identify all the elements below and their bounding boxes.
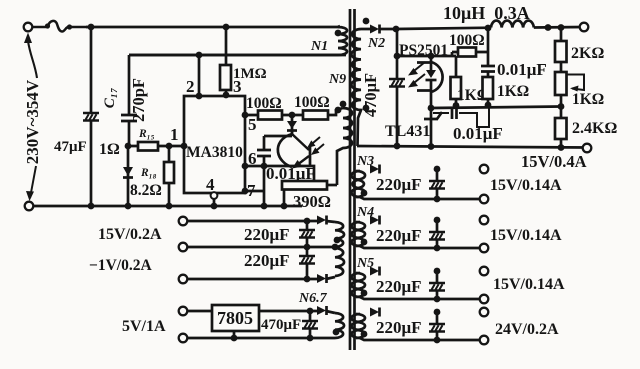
svg-text:100Ω: 100Ω — [294, 94, 330, 111]
node pot-feedback — [558, 103, 565, 110]
capacitor C17 270pF line — [128, 55, 131, 146]
wire N3 top — [351, 171, 360, 197]
svg-text:5: 5 — [248, 115, 257, 134]
svg-text:100Ω: 100Ω — [246, 95, 282, 112]
capacitor 220uF N8 — [436, 312, 439, 340]
diode D9 row4 — [317, 306, 327, 315]
node LED top — [428, 53, 435, 60]
svg-text:N6.7: N6.7 — [298, 291, 328, 306]
diode N4 — [370, 216, 380, 225]
potentiometer leg — [560, 95, 563, 118]
wire row1 — [187, 221, 335, 222]
fuse F1 squiggle — [33, 21, 88, 32]
terminal N4 minus — [480, 244, 489, 253]
resistor 1K A box — [451, 77, 462, 99]
svg-text:470μF: 470μF — [361, 73, 380, 117]
capacitor 0.01uF pin6 top wire — [264, 135, 292, 138]
node TL431 anode — [428, 143, 435, 150]
svg-text:N5: N5 — [356, 256, 374, 271]
node C17-pin1 — [125, 143, 132, 150]
inductor L1 10uH — [491, 21, 534, 28]
node N5-cap-bot — [434, 296, 441, 303]
diode D5 line — [291, 115, 294, 136]
phase dot N8 — [361, 331, 368, 338]
winding N8 — [356, 314, 365, 338]
pin 4 wire — [213, 199, 216, 206]
svg-text:7805: 7805 — [217, 308, 253, 328]
capacitor 220uF row23 — [306, 247, 309, 279]
terminal AC input bottom — [25, 202, 34, 211]
node row2-cap — [304, 244, 311, 251]
wire 7805 ground leg — [233, 331, 236, 338]
resistor R18 box — [164, 162, 174, 183]
svg-text:7: 7 — [247, 181, 256, 200]
node LED cathode — [428, 105, 435, 112]
node N8-cap-bot — [434, 337, 441, 344]
svg-text:390Ω: 390Ω — [293, 192, 331, 211]
svg-text:8.2Ω: 8.2Ω — [130, 182, 162, 199]
capacitor 220uF N4 — [436, 220, 439, 248]
phase dot N4 — [361, 239, 368, 246]
wire N8 bottom — [360, 338, 480, 340]
node R18-top — [166, 143, 173, 150]
terminal 5V1A — [179, 307, 188, 316]
svg-text:220μF: 220μF — [376, 277, 422, 296]
wire row3 — [187, 277, 335, 279]
resistor 1M box — [220, 65, 231, 90]
capacitor 0.01uF comp loop — [433, 107, 489, 127]
node rail-548 — [545, 24, 552, 31]
resistor 2K line — [560, 27, 563, 72]
diode N8 — [370, 308, 380, 317]
resistor 1K B box — [483, 77, 494, 99]
winding N1 — [129, 26, 347, 55]
wire pin5 — [245, 108, 343, 115]
svg-text:3: 3 — [233, 77, 242, 96]
svg-text:230V~354V: 230V~354V — [23, 79, 42, 164]
wire LED feed y56 — [397, 55, 456, 58]
winding NB lower — [335, 248, 344, 276]
svg-text:TL431: TL431 — [385, 123, 430, 140]
winding N6.7 — [335, 313, 344, 338]
node rail-488 — [485, 25, 492, 32]
svg-text:5V/1A: 5V/1A — [122, 318, 166, 335]
wire N4 bottom — [360, 246, 480, 248]
terminal N5 minus — [480, 295, 489, 304]
pin 3 node — [223, 92, 230, 99]
capacitor 47uF symbol — [83, 113, 99, 121]
phase dot NA — [334, 237, 341, 244]
svg-text:0.01μF: 0.01μF — [453, 124, 503, 143]
node 470-LED tap — [394, 53, 401, 60]
resistor 390ohm left leg — [283, 189, 286, 206]
svg-text:15V/0.14A: 15V/0.14A — [490, 227, 562, 244]
capacitor 0.01uF B bars — [481, 66, 495, 72]
node N3-cap-bot — [434, 196, 441, 203]
regulator 7805 box — [212, 305, 259, 331]
optocoupler U2 package arc — [417, 62, 443, 92]
winding N3 — [356, 171, 365, 197]
svg-text:R₁₈: R₁₈ — [140, 167, 157, 179]
node 2.4K-rail — [558, 144, 565, 151]
phase dot N6.7 — [333, 329, 340, 336]
node N4-cap-top — [434, 217, 441, 224]
terminal N4 plus — [480, 216, 489, 225]
TL431 U3 line — [430, 108, 433, 146]
wire N5 top — [352, 273, 361, 297]
node 1KB bottom — [485, 102, 492, 109]
pin 7 wire — [245, 190, 264, 193]
svg-text:1: 1 — [170, 125, 179, 144]
node N5-cap-top — [434, 268, 441, 275]
svg-text:15V/0.14A: 15V/0.14A — [493, 276, 565, 293]
svg-text:220μF: 220μF — [244, 251, 290, 270]
svg-text:470μF: 470μF — [261, 317, 301, 333]
node rail-1M — [223, 24, 230, 31]
node rail-47u — [88, 24, 95, 31]
svg-text:10μH 0.3A: 10μH 0.3A — [443, 3, 530, 23]
terminal 5V common — [179, 334, 188, 343]
wire N5 bottom — [360, 297, 480, 299]
potentiometer wiper bracket — [567, 75, 584, 91]
svg-text:15V/0.2A: 15V/0.2A — [98, 226, 162, 243]
diode D6 N2 wire — [361, 28, 397, 31]
svg-text:270pF: 270pF — [129, 78, 148, 122]
resistor 100ohm B box — [303, 111, 328, 120]
terminal 15V02 — [179, 217, 188, 226]
node 47u-bottom — [88, 203, 95, 210]
winding N4 — [356, 222, 365, 246]
node pin7-rail — [261, 203, 268, 210]
LED emission arrows — [412, 62, 425, 85]
node row3-cap — [304, 276, 311, 283]
pin 2 wire — [198, 55, 201, 96]
resistor 2.4K legs — [560, 139, 563, 148]
node R18-bottom — [166, 203, 173, 210]
wire row4 right — [259, 311, 335, 313]
node N3-cap-top — [434, 166, 441, 173]
capacitor 0.01uF pin6 line — [263, 136, 266, 206]
svg-text:N3: N3 — [356, 154, 374, 169]
svg-text:15V/0.14A: 15V/0.14A — [490, 177, 562, 194]
svg-text:1Ω: 1Ω — [99, 141, 120, 158]
diode D5 symbol down — [287, 121, 297, 129]
node row4-cap — [307, 308, 314, 315]
capacitor 220uF N3 — [436, 169, 439, 199]
resistor 2K box — [555, 41, 567, 62]
svg-text:24V/0.2A: 24V/0.2A — [495, 321, 559, 338]
winding N9 — [337, 108, 352, 185]
terminal 15V04 minus — [583, 144, 592, 153]
wire N8 top — [352, 314, 361, 338]
phase dot N9 — [340, 101, 347, 108]
svg-text:220μF: 220μF — [376, 226, 422, 245]
diode N5 — [370, 267, 380, 276]
diode D4 line — [127, 146, 130, 206]
arrow 230V range line top — [28, 41, 37, 78]
winding N5 — [356, 273, 365, 297]
resistor 100ohm A box — [258, 111, 282, 120]
phototransistor Q1 base bar — [309, 145, 312, 166]
pin 5 node — [242, 112, 249, 119]
pin 6 node — [242, 163, 249, 170]
capacitor 47uF line — [90, 27, 93, 206]
phase dot N3 — [361, 190, 368, 197]
svg-text:C₁₇: C₁₇ — [102, 88, 118, 108]
svg-text:N4: N4 — [356, 205, 374, 220]
phase dot N2 top — [363, 18, 370, 25]
terminal N8 minus — [480, 336, 489, 345]
node between 100ohms — [289, 112, 296, 119]
svg-text:MA3810: MA3810 — [186, 144, 243, 161]
phase dot N5 — [361, 290, 368, 297]
terminal N3 plus — [480, 165, 489, 174]
pin 1 wire — [128, 145, 184, 148]
pin 6 wire — [245, 166, 314, 181]
capacitor 0.01uF pin6 bars — [257, 150, 271, 156]
capacitor 0.01uF B line — [487, 28, 490, 77]
resistor 390ohm box — [282, 181, 327, 190]
svg-text:N9: N9 — [328, 72, 346, 87]
IC U1 MA3810 box — [184, 96, 245, 193]
resistor 2.4K box — [555, 118, 567, 139]
winding N2 — [351, 29, 361, 146]
capacitor C17 bars — [121, 115, 137, 121]
svg-text:0.01μF: 0.01μF — [497, 60, 547, 79]
light arrows into Q1 — [310, 137, 324, 153]
pin 2 node — [196, 52, 203, 59]
terminal -1V02 — [179, 243, 188, 252]
capacitor 470uF symbol — [389, 79, 405, 87]
node rail-2K — [558, 24, 565, 31]
node row1-cap — [304, 218, 311, 225]
optocoupler U2 LED symbol — [426, 70, 436, 78]
resistor R15 1ohm box — [138, 142, 158, 151]
wire N3 bottom — [360, 197, 480, 199]
wire top rail primary — [86, 26, 340, 29]
wire feedback y107 — [431, 107, 561, 109]
diode D8 row3 — [317, 274, 327, 283]
capacitor 0.01uF comp bars — [452, 107, 457, 119]
svg-text:N2: N2 — [367, 36, 385, 51]
pin 4 circle — [211, 192, 218, 199]
resistor R18 line — [168, 146, 171, 206]
phase dot N1 — [335, 30, 342, 37]
node N9 top — [335, 107, 342, 114]
diode D6 symbol — [370, 25, 380, 34]
diode N3 — [370, 165, 380, 174]
wire N4 top — [352, 222, 361, 246]
terminal common row3 — [179, 275, 188, 284]
capacitor 220uF N5 — [436, 271, 439, 299]
svg-text:6: 6 — [248, 149, 257, 168]
winding NA upper — [335, 222, 344, 247]
node N8-cap-top — [434, 309, 441, 316]
svg-text:R₁₅: R₁₅ — [138, 128, 155, 140]
wire bottom rail primary — [33, 205, 302, 208]
node N4-cap-bot — [434, 245, 441, 252]
wire N1 return y55 — [129, 54, 346, 57]
phototransistor Q1 body — [278, 134, 292, 167]
svg-text:1KΩ: 1KΩ — [572, 91, 604, 108]
resistor 1K B leg — [487, 99, 490, 106]
node 390-rail — [281, 203, 288, 210]
terminal N5 plus — [480, 267, 489, 276]
capacitor 470uF line — [396, 29, 399, 146]
resistor 1K A line — [455, 56, 458, 106]
svg-text:100Ω: 100Ω — [449, 32, 485, 49]
wire row2 — [187, 246, 335, 249]
arrow 230V range line bottom — [30, 166, 36, 198]
svg-text:15V/0.4A: 15V/0.4A — [521, 152, 587, 171]
pin 7 node — [242, 188, 249, 195]
resistor 1M line — [225, 27, 228, 96]
TL431 U3 symbol — [424, 112, 442, 119]
wire secondary bottom rail — [357, 146, 587, 148]
svg-text:220μF: 220μF — [244, 225, 290, 244]
terminal 15V04 plus — [580, 23, 589, 32]
svg-text:4: 4 — [206, 175, 215, 194]
node 470-bottom — [394, 143, 401, 150]
svg-text:1KΩ: 1KΩ — [497, 83, 529, 100]
svg-text:220μF: 220μF — [376, 318, 422, 337]
diode D7 row1 — [317, 216, 327, 225]
wire row4 left — [187, 310, 212, 313]
terminal N8 plus — [480, 308, 489, 317]
svg-text:N1: N1 — [310, 39, 328, 54]
svg-text:2: 2 — [186, 77, 195, 96]
node 1KA bottom — [453, 102, 460, 109]
wire secondary top rail — [396, 27, 584, 29]
potentiometer 1K box — [555, 72, 567, 95]
transformer core — [350, 9, 355, 350]
svg-text:220μF: 220μF — [376, 175, 422, 194]
terminal N3 minus — [480, 195, 489, 204]
node row2-coil — [332, 244, 339, 251]
node pin4-rail — [211, 203, 218, 210]
svg-text:2.4KΩ: 2.4KΩ — [572, 120, 617, 137]
svg-text:PS2501: PS2501 — [399, 42, 448, 59]
svg-text:2KΩ: 2KΩ — [571, 45, 604, 62]
phototransistor Q1 emitter arrow — [297, 156, 309, 165]
node D4-bottom — [125, 203, 132, 210]
node row5-cap — [307, 335, 314, 342]
wire row5 — [187, 337, 335, 340]
svg-text:−1V/0.2A: −1V/0.2A — [89, 257, 152, 274]
svg-text:47μF: 47μF — [54, 139, 87, 155]
resistor 100ohm C wire — [452, 52, 488, 56]
node 7805-gnd — [231, 335, 238, 342]
node pin1 — [181, 143, 188, 150]
node rect-out — [393, 26, 400, 33]
terminal AC input top — [24, 23, 33, 32]
diode D4 symbol down — [123, 167, 133, 176]
resistor 100ohm C box — [458, 48, 476, 57]
capacitor 220uF row12 — [306, 221, 309, 247]
capacitor 470uF B — [309, 311, 312, 338]
phase dot N2 bottom — [363, 105, 370, 112]
resistor 390ohm right leg — [327, 184, 337, 187]
optocoupler U2 LED line — [430, 56, 433, 108]
